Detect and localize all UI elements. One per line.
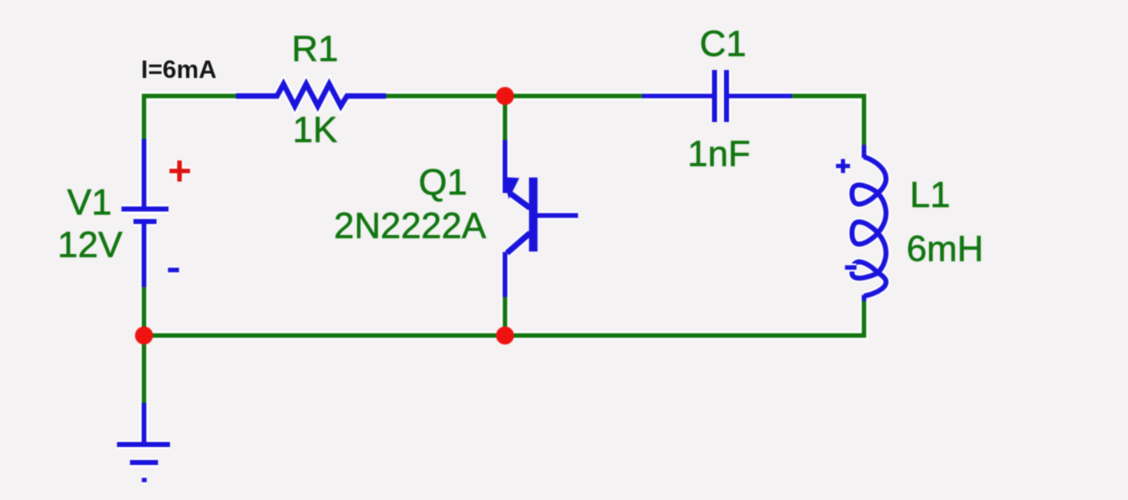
svg-text:Q1: Q1: [419, 162, 468, 203]
wire W7: node B to node C (bottom rail): [144, 331, 505, 340]
wire W10: node C to ground: [140, 335, 149, 404]
node A junction dot: [496, 87, 514, 105]
svg-text:C1: C1: [700, 23, 747, 64]
wire W5: C1 to L1 (top-right corner): [792, 96, 864, 147]
svg-text:1K: 1K: [293, 109, 338, 150]
polarity minus (L1, blue): [845, 264, 857, 272]
wire W8: Q1 emitter to node B: [501, 297, 510, 335]
node B junction dot: [496, 327, 514, 345]
ground GND: [117, 403, 170, 482]
polarity plus (V1, red): [170, 161, 191, 182]
resistor R1: [236, 84, 387, 106]
svg-text:6mH: 6mH: [906, 228, 983, 269]
wire W9: battery minus to node C: [140, 287, 149, 336]
svg-text:2N2222A: 2N2222A: [334, 205, 487, 246]
transistor Q1: [504, 140, 579, 298]
polarity minus (V1, blue): [168, 266, 179, 274]
polarity plus (L1, blue): [836, 159, 850, 173]
svg-text:I=6mA: I=6mA: [141, 56, 217, 84]
wire W1: battery plus to R1 (top-left corner): [144, 96, 238, 140]
capacitor C1: [642, 70, 793, 122]
wire W2: R1 to node A: [386, 92, 505, 101]
battery V1: [122, 139, 169, 288]
wire W3: node A to C1: [505, 92, 643, 101]
wire W6: L1 to bottom rail (bottom-right corner): [505, 301, 864, 336]
wire W4: node A to Q1 collector: [501, 96, 510, 141]
svg-text:1nF: 1nF: [688, 133, 751, 174]
svg-text:V1: V1: [67, 182, 112, 223]
node C junction dot: [135, 327, 153, 345]
svg-text:12V: 12V: [58, 224, 124, 265]
svg-text:R1: R1: [292, 28, 339, 69]
svg-text:L1: L1: [910, 174, 951, 215]
inductor L1: [852, 145, 886, 302]
